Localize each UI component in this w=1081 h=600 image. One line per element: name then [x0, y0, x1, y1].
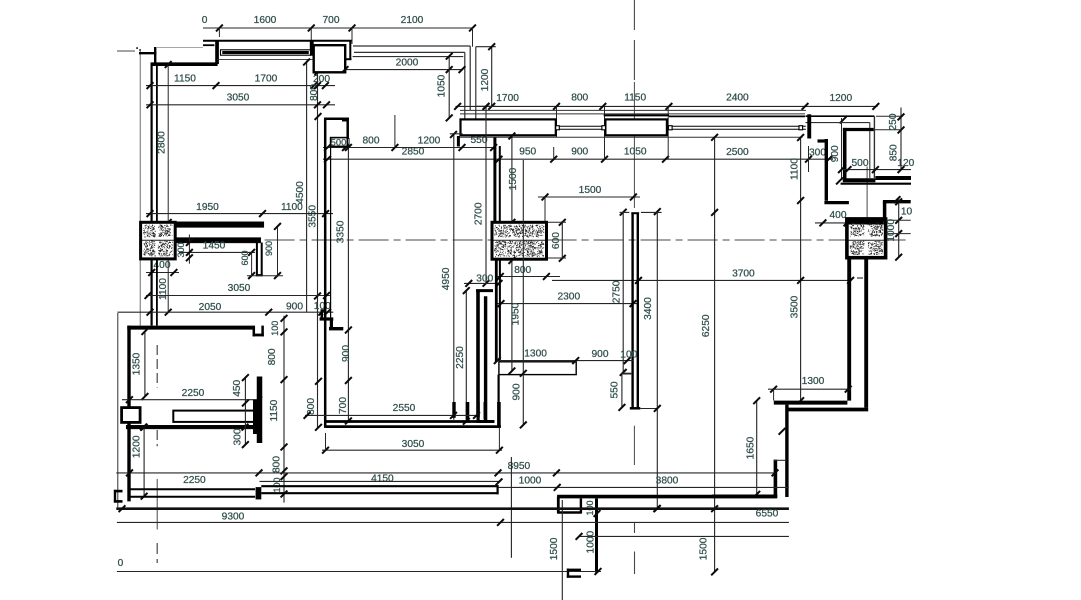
svg-text:1200: 1200	[131, 435, 142, 458]
pier outer contour right	[349, 40, 351, 58]
dim 600 niche vertical	[251, 252, 253, 275]
svg-text:1450: 1450	[203, 241, 226, 252]
svg-text:0: 0	[118, 558, 124, 569]
svg-text:3800: 3800	[656, 476, 679, 487]
svg-text:900: 900	[512, 383, 523, 400]
svg-text:2100: 2100	[401, 15, 424, 26]
thin boundary x=117.8	[117, 313, 119, 509]
window sill line	[217, 58, 313, 60]
inner wall bar	[175, 238, 261, 243]
zero line y=571.5	[117, 571, 601, 573]
bottom wall left room (outline)	[129, 488, 256, 490]
vertical axis centerline x=634.5 top	[633, 0, 635, 30]
chain 2050/900/100 y=312.2	[118, 311, 334, 313]
svg-text:2300: 2300	[557, 291, 580, 302]
faint outer line	[156, 47, 203, 49]
svg-text:300: 300	[176, 242, 186, 257]
svg-text:1650: 1650	[746, 436, 757, 459]
step connector	[774, 459, 786, 461]
svg-text:1200: 1200	[418, 135, 441, 146]
svg-text:1700: 1700	[496, 93, 519, 104]
wall top bar + right leg x 324-349	[324, 117, 349, 120]
svg-text:6550: 6550	[756, 508, 779, 519]
svg-text:4150: 4150	[371, 474, 394, 485]
svg-text:450: 450	[232, 379, 243, 396]
svg-text:800: 800	[272, 456, 283, 473]
svg-text:10: 10	[901, 207, 913, 218]
inner wall face right of window	[312, 44, 318, 46]
chain 1950/1100 y=213.6	[146, 213, 333, 215]
svg-text:2000: 2000	[396, 58, 419, 69]
dim 1200 top stub	[476, 46, 496, 48]
svg-text:900: 900	[286, 301, 303, 312]
band outer line 2	[460, 113, 805, 115]
svg-text:4500: 4500	[295, 181, 306, 204]
ext from tick 1600-right	[310, 28, 312, 41]
left wall x=129	[127, 326, 130, 502]
ext x=499.4	[498, 427, 500, 450]
svg-text:3500: 3500	[789, 295, 800, 318]
dim 2800 extension line x=168	[167, 66, 169, 312]
svg-text:6250: 6250	[701, 314, 712, 337]
ext x=808.5	[808, 146, 810, 172]
svg-text:1950: 1950	[511, 302, 522, 325]
ext x=604.5	[604, 106, 606, 159]
dim 400 line y=272.5	[146, 272, 179, 274]
dim 3700 line y=280.4	[552, 279, 851, 281]
svg-text:1500: 1500	[699, 537, 710, 560]
svg-text:1150: 1150	[624, 93, 646, 104]
svg-text:600: 600	[551, 232, 562, 249]
svg-text:1000: 1000	[886, 219, 897, 242]
stub wall bottom to x=657	[640, 408, 658, 410]
glazing mullion square	[799, 126, 803, 130]
svg-text:2800: 2800	[157, 131, 168, 154]
band outer line 1	[460, 109, 806, 111]
dim 450/300 x=245.4	[244, 378, 246, 445]
svg-text:1000: 1000	[586, 530, 597, 553]
svg-text:1100: 1100	[158, 278, 169, 300]
dim 300 niche vertical	[188, 235, 190, 264]
dim 1300 line y=389.2	[768, 388, 851, 390]
chain 1150/1700/200 y=85.6	[146, 85, 335, 87]
svg-text:800: 800	[363, 136, 380, 147]
dim 1050 vertical	[448, 56, 450, 118]
svg-text:700: 700	[338, 397, 349, 414]
room top wall	[151, 62, 218, 66]
glazing mullion square	[556, 126, 560, 130]
svg-text:800: 800	[267, 348, 278, 365]
dim line 3550/800 x=317.5	[317, 71, 319, 427]
svg-text:1050: 1050	[624, 147, 647, 158]
dim 1200 x=144.1	[143, 427, 145, 496]
dim 800 pier y=276.5	[496, 276, 560, 278]
inner wall face left of window	[203, 44, 214, 46]
dim 2300 line y=303.6	[496, 303, 639, 305]
dim 900 niche vertical	[277, 226, 279, 276]
svg-text:300: 300	[233, 428, 244, 445]
svg-text:3350: 3350	[335, 220, 346, 243]
balcony parapet line 2	[354, 51, 465, 53]
ext x=325.5	[325, 433, 327, 450]
dim 500 line y=169.6	[842, 169, 911, 171]
step vert wall B	[774, 460, 778, 497]
stub y=220.3	[886, 219, 911, 221]
dim 900rot ext x=841.5	[841, 118, 843, 178]
step vert wall A	[785, 405, 788, 497]
wall step y=202.6	[824, 201, 849, 204]
left wall outer face upper	[151, 63, 153, 223]
dim 250/850 x=901	[900, 108, 902, 170]
ext x=773.6	[773, 389, 775, 400]
svg-text:800: 800	[571, 93, 588, 104]
top wall bar	[141, 222, 264, 228]
axis through pier P2	[494, 239, 546, 241]
loggia bottom wall right part	[875, 176, 911, 180]
dim 2550 line y=415.4	[305, 414, 477, 416]
dim 300 y=283.4	[464, 282, 500, 284]
svg-text:2250: 2250	[182, 388, 205, 399]
narrow wall pair x 632-638	[631, 213, 633, 409]
dim stub y=275.8	[247, 275, 283, 277]
svg-text:2250: 2250	[455, 346, 466, 369]
window box 1150	[605, 119, 667, 135]
svg-text:800: 800	[306, 398, 317, 415]
svg-text:250: 250	[888, 113, 899, 130]
glazing mullion square	[602, 126, 606, 130]
svg-text:900: 900	[264, 241, 274, 256]
door jog piece x 320-343 y 309-331	[320, 309, 323, 318]
right wall bars of room	[253, 400, 257, 435]
window 1600 glazing band	[223, 51, 309, 54]
ext from tick 2100-right	[472, 28, 474, 47]
svg-text:3050: 3050	[227, 93, 250, 104]
thick line above 1150 box	[604, 114, 669, 116]
dashed axis x=157 bottom-left room	[156, 345, 158, 388]
wall face x=500	[499, 146, 501, 223]
dim 1450 line	[179, 251, 255, 253]
pier between windows	[314, 45, 346, 72]
dim 4950 x=453.8	[453, 133, 455, 420]
dim column x=284	[283, 316, 285, 503]
svg-text:1150: 1150	[174, 74, 196, 85]
nested wall ends at terrace door	[452, 402, 455, 418]
wall stub top-left horizontal	[139, 52, 156, 54]
balcony parapet right v1	[464, 52, 466, 119]
svg-text:900: 900	[592, 349, 609, 360]
svg-text:120: 120	[897, 158, 914, 169]
small bracket bottom center	[567, 569, 581, 571]
svg-text:3700: 3700	[732, 268, 755, 279]
room top wall y=327.6	[127, 326, 252, 330]
dim 6250 x=714.6	[714, 137, 716, 572]
svg-text:100: 100	[270, 321, 280, 336]
dim 600 pier x=562.3	[561, 221, 563, 259]
svg-text:1300: 1300	[802, 376, 825, 387]
chain 1700/800/1150/2400/1200 y=106.4	[456, 105, 878, 107]
svg-text:850: 850	[889, 144, 900, 161]
svg-text:550: 550	[471, 135, 488, 146]
dim 1650 x=756.7	[756, 401, 758, 496]
chain 2850/950/900/1050/2500/300 y=159.2	[323, 158, 833, 160]
thin line y=536.4	[579, 535, 789, 537]
axis through pier P3	[849, 239, 885, 241]
dim 1950B x=512	[511, 259, 513, 371]
wall U-bar below niche	[256, 243, 258, 277]
svg-text:1100: 1100	[790, 158, 801, 180]
ext x=562.3	[561, 500, 563, 600]
svg-text:2500: 2500	[726, 147, 749, 158]
ext from tick 700-right	[351, 28, 353, 44]
dim 400B line	[815, 222, 849, 224]
hollow bar wardrobe	[173, 411, 256, 422]
stub 250 bottom	[874, 129, 901, 131]
ext x=556.5	[556, 106, 558, 137]
small mark in wall cavity	[857, 277, 863, 279]
svg-text:900: 900	[341, 345, 352, 362]
axis x=867 right loggia	[866, 167, 868, 220]
svg-text:1350: 1350	[132, 352, 143, 375]
axis x=634.5 through window band	[633, 82, 635, 208]
svg-text:900: 900	[571, 147, 588, 158]
partition wall outline	[499, 362, 576, 375]
chain 1300/900/100 y=360.6	[496, 360, 633, 362]
svg-text:1600: 1600	[254, 15, 277, 26]
axis through pier P1	[142, 239, 174, 241]
svg-text:1700: 1700	[255, 74, 278, 85]
bottom wall lines	[326, 420, 494, 423]
shaft box left	[122, 408, 141, 423]
pier P2 center hatched	[492, 222, 547, 259]
stub 250 top	[876, 115, 901, 117]
svg-text:2850: 2850	[402, 147, 425, 158]
chain 2250/4150/1000/3800 y=472.9	[116, 472, 775, 474]
dim 2750 x=623.2	[622, 212, 624, 372]
ext x=511.4	[510, 457, 512, 558]
dim 3400 top stub	[641, 211, 662, 213]
svg-text:2400: 2400	[726, 93, 749, 104]
extension x=475.8	[475, 47, 477, 120]
svg-text:800: 800	[309, 84, 320, 101]
top dimension chain line y=28	[203, 27, 473, 29]
svg-text:3050: 3050	[402, 439, 425, 450]
svg-text:200: 200	[313, 74, 330, 85]
svg-text:2550: 2550	[393, 403, 416, 414]
dim 550 x=621.9	[621, 372, 623, 407]
svg-text:500: 500	[852, 158, 869, 169]
axis/extension x=140 left	[139, 49, 141, 326]
wall above pier3	[883, 202, 887, 220]
axis dash-dot leftmost top	[117, 50, 135, 52]
balcony parapet line 1	[353, 45, 470, 47]
svg-text:500: 500	[331, 137, 347, 148]
pier outer contour left	[310, 41, 312, 49]
axis x=634.5 below plan	[633, 426, 635, 465]
C bracket left	[114, 490, 123, 493]
stub y=233.6	[886, 233, 911, 235]
wall step x 476-487	[476, 292, 480, 417]
window box 1700	[461, 119, 556, 135]
wall face x=495	[493, 138, 496, 223]
loggia inner walls	[843, 128, 847, 181]
wall x=826	[825, 139, 828, 201]
svg-text:2750: 2750	[611, 280, 622, 303]
dim 1350 x=144.9	[144, 332, 146, 397]
dim line 4500 x=306.6	[306, 61, 308, 313]
svg-text:0: 0	[202, 15, 208, 26]
stub 550 top	[622, 373, 631, 375]
dim stub 200 y=71.8	[314, 71, 327, 73]
band bottom line	[457, 136, 803, 138]
ext x=545	[544, 197, 546, 222]
step wall A	[774, 401, 848, 405]
terrace bottom wall right	[712, 494, 777, 498]
glazing lines	[672, 125, 806, 127]
svg-text:950: 950	[519, 147, 536, 158]
bottom wall center segment lower	[261, 492, 498, 494]
band thick line 2400 section	[669, 115, 805, 117]
svg-text:1950: 1950	[196, 202, 219, 213]
dim 3400 x=657.3	[656, 212, 658, 509]
chain line y=481.4	[260, 480, 500, 482]
window right jamb	[310, 41, 313, 55]
svg-text:1200: 1200	[829, 93, 852, 104]
loggia parapet right	[806, 115, 875, 117]
svg-text:100: 100	[272, 477, 282, 492]
svg-text:3050: 3050	[228, 283, 251, 294]
wall stub top-left vertical	[154, 47, 156, 63]
chain 800/1200/550 y=147.5	[323, 147, 495, 149]
svg-text:1100: 1100	[281, 202, 303, 213]
dim 2750 top stub	[620, 211, 630, 213]
dim 1200 bottom stub	[476, 105, 496, 107]
ext x=553.7	[553, 147, 555, 159]
dim 600 top stub	[548, 221, 566, 223]
ext from tick 1600-left	[218, 28, 220, 37]
svg-text:100: 100	[620, 350, 637, 361]
chain 3050 y=104.8	[146, 104, 335, 106]
wall top right y=141	[818, 139, 829, 142]
glazing lines	[559, 125, 602, 127]
left wall inner face upper	[156, 66, 158, 223]
wall stub below band left	[457, 136, 460, 147]
bottom wall center segment upper	[261, 485, 498, 487]
svg-text:2250: 2250	[183, 475, 206, 486]
balcony parapet right v2	[469, 46, 471, 110]
terrace bottom walls center	[557, 495, 777, 499]
svg-text:1000: 1000	[519, 476, 542, 487]
svg-text:550: 550	[610, 381, 621, 398]
svg-text:3400: 3400	[643, 297, 654, 320]
pier outer contour bottom	[343, 58, 352, 60]
thick chain line y=508.7	[116, 507, 789, 510]
dim 1100/3500 x=800.6	[800, 138, 802, 401]
svg-text:2700: 2700	[473, 202, 484, 225]
svg-text:1300: 1300	[524, 349, 547, 360]
svg-text:1500: 1500	[579, 185, 602, 196]
balcony parapet line 3	[353, 56, 464, 58]
horizontal axis centerline y=240	[265, 239, 909, 241]
ext/dim 900C x=523.3	[522, 160, 524, 425]
loggia bottom wall lower line	[841, 183, 911, 185]
dim 2250A line y=399.7	[122, 399, 260, 401]
boxed 500 label	[331, 138, 348, 147]
svg-text:600: 600	[240, 250, 250, 265]
window 1600 frame	[221, 50, 311, 55]
right wall pair below pier3	[847, 258, 851, 401]
svg-text:2050: 2050	[199, 302, 222, 313]
dim 3050C line y=450.2	[322, 449, 502, 451]
stub 550 top band	[450, 133, 463, 135]
loggia bottom wall left part	[843, 178, 876, 182]
dim 1500A x=512	[511, 136, 513, 222]
svg-text:700: 700	[323, 15, 340, 26]
svg-text:4950: 4950	[441, 267, 452, 290]
svg-text:1050: 1050	[437, 74, 448, 97]
ext x=395	[394, 115, 396, 147]
svg-text:9300: 9300	[222, 512, 245, 523]
svg-text:900: 900	[830, 145, 841, 162]
svg-text:300: 300	[476, 274, 493, 285]
dim 1500B line y=197	[538, 196, 640, 198]
svg-text:400: 400	[830, 210, 847, 221]
outer wall face top	[203, 40, 352, 42]
solid partition bar y=427	[126, 425, 257, 429]
glazing mullion square	[669, 126, 673, 130]
dim 1200 vertical line	[491, 47, 493, 107]
door notch at x 252-264	[253, 326, 256, 337]
dim 2000 line y=69.6	[345, 69, 462, 71]
pier P3 right hatched	[847, 219, 886, 258]
dim 3350/900/700 x=348.4	[347, 146, 349, 421]
dim 2250B x=466.3	[465, 291, 467, 420]
svg-text:1150: 1150	[269, 399, 280, 421]
svg-text:1200: 1200	[480, 68, 491, 91]
right room wall x=325	[324, 118, 327, 428]
thin line y=487.4	[499, 486, 789, 488]
pier P1 left hatched	[141, 222, 176, 259]
svg-text:300: 300	[809, 147, 826, 158]
chain 3050B y=295.5	[146, 295, 331, 297]
left wall pair below pier	[151, 259, 153, 326]
svg-text:3550: 3550	[307, 205, 318, 228]
dim 600 bottom stub	[548, 257, 566, 259]
thin line y=522.4	[117, 521, 789, 523]
ext x=668.2	[667, 106, 669, 159]
ext x=349	[348, 138, 350, 147]
dim 1000 x=898.7	[898, 199, 900, 258]
svg-text:1500: 1500	[549, 537, 560, 560]
svg-text:1500: 1500	[508, 167, 519, 190]
wall faces x 496/500	[495, 259, 498, 362]
window left jamb	[216, 41, 219, 64]
dim 2700 x=486	[485, 106, 487, 283]
step wall B	[786, 408, 868, 412]
